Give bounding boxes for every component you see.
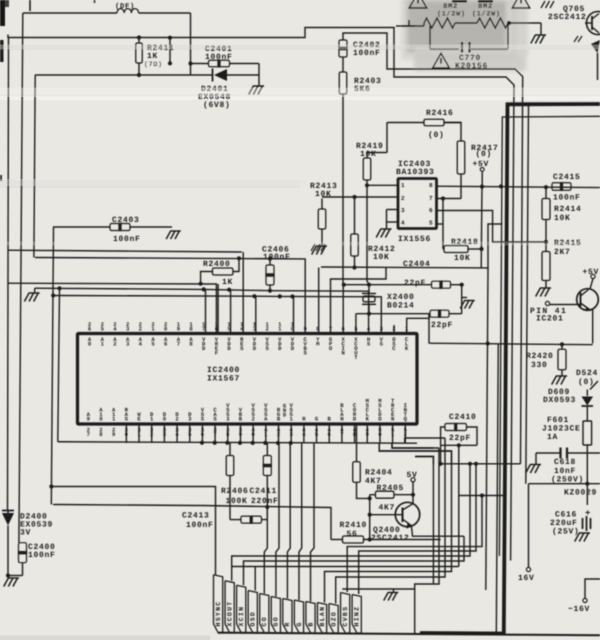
- wire route p26b: [405, 438, 445, 443]
- wire pin drops top: [205, 290, 207, 334]
- capacitor C2410: [445, 424, 467, 431]
- wire under-IC VSS line: [58, 442, 417, 443]
- svg-text:(7Ω): (7Ω): [144, 61, 163, 68]
- svg-text:2: 2: [392, 326, 395, 333]
- svg-text:2: 2: [251, 415, 254, 422]
- ground G_C616b: [584, 533, 589, 542]
- svg-text:N: N: [391, 415, 394, 422]
- svg-text:HSYNC: HSYNC: [215, 600, 222, 626]
- ground G1: [258, 86, 263, 95]
- svg-text:F: F: [215, 350, 218, 357]
- resistor R2414: [542, 199, 550, 220]
- wire bus v528: [526, 105, 529, 484]
- svg-text:CO: CO: [261, 616, 268, 626]
- wire R2416 left drop: [386, 123, 388, 153]
- ground G7: [545, 288, 550, 297]
- warning triangle right: [512, 0, 530, 8]
- svg-text:9: 9: [177, 325, 180, 332]
- svg-text:−16V: −16V: [568, 605, 590, 614]
- svg-text:100nF: 100nF: [553, 194, 581, 203]
- svg-text:(1/2W): (1/2W): [437, 11, 466, 19]
- svg-text:6: 6: [429, 207, 433, 214]
- resistor R2400: [212, 268, 233, 275]
- svg-text:7: 7: [87, 431, 90, 438]
- warning triangle left: [409, 0, 427, 8]
- svg-text:100nF: 100nF: [186, 521, 214, 530]
- wire pin6 route: [437, 211, 547, 243]
- bus connector flags: [214, 575, 223, 633]
- transistor Q705 (edge cut): [587, 12, 600, 35]
- wire CLK route: [407, 314, 429, 333]
- svg-text:2: 2: [139, 325, 142, 332]
- svg-text:IC201: IC201: [536, 315, 564, 324]
- wire join bottom: [8, 575, 23, 577]
- wire 488 long drop: [486, 268, 488, 591]
- wire R2418 vertical: [480, 187, 483, 268]
- terminal 16V: [526, 567, 530, 571]
- svg-text:DX0593: DX0593: [543, 396, 576, 405]
- resistor R2411: [136, 43, 143, 63]
- wire R2419 long drop: [367, 185, 369, 284]
- ground G8: [561, 376, 566, 385]
- resistor R2410: [343, 536, 364, 543]
- wire D2400 down: [7, 526, 9, 576]
- svg-text:220nF: 220nF: [251, 497, 279, 506]
- wire stair Lf: [325, 451, 452, 603]
- svg-text:16V: 16V: [518, 574, 535, 583]
- capacitor C2401: [209, 60, 230, 67]
- capacitor C770: [429, 26, 431, 49]
- svg-text:(0): (0): [578, 378, 595, 387]
- wire y343.5 line: [429, 343, 593, 345]
- transistor Q2400: [395, 502, 419, 526]
- svg-text:(0): (0): [428, 131, 445, 140]
- svg-text:C2403: C2403: [112, 216, 140, 225]
- transistor Q (IC201 drive): [577, 289, 599, 311]
- ground G6: [385, 229, 390, 238]
- svg-text:+5V: +5V: [583, 268, 600, 277]
- svg-text:+5V: +5V: [473, 160, 490, 169]
- svg-text:10K: 10K: [360, 150, 377, 159]
- wire route y456: [415, 457, 433, 584]
- svg-text:100nF: 100nF: [263, 253, 291, 262]
- svg-text:5: 5: [429, 220, 433, 227]
- wire pin2 net: [321, 199, 323, 210]
- svg-text:N: N: [340, 415, 343, 422]
- terminal PIN41: [545, 301, 549, 305]
- wire stair Le: [232, 566, 459, 568]
- svg-text:D524: D524: [576, 369, 598, 378]
- wire v_d: [58, 288, 60, 441]
- svg-text:3V: 3V: [20, 529, 31, 538]
- wire F601 down: [586, 484, 588, 505]
- wire line C: [8, 283, 216, 333]
- resistor R2412: [351, 234, 359, 256]
- diode D2401: [214, 69, 227, 81]
- ground G_8M2: [540, 35, 545, 44]
- wire line A y250: [8, 250, 242, 252]
- svg-text:2SC2412: 2SC2412: [548, 13, 587, 22]
- svg-text:100nF: 100nF: [353, 49, 381, 58]
- resistor R2404: [353, 462, 361, 483]
- wire emitter down: [592, 310, 594, 344]
- svg-text:R2416: R2416: [426, 109, 454, 118]
- wire flag feeds straight: [264, 507, 267, 594]
- ground G_C616a: [582, 518, 584, 529]
- wire flag1 feed: [53, 487, 216, 575]
- wire stair Lg: [336, 438, 445, 604]
- svg-text:10K: 10K: [554, 214, 571, 223]
- svg-text:22pF: 22pF: [449, 434, 471, 443]
- resistor R2403: [339, 72, 347, 94]
- svg-text:IX1567: IX1567: [207, 375, 240, 384]
- wire pin3 pin4 to ground: [387, 209, 399, 211]
- IC IC2400 body: [78, 334, 418, 425]
- svg-text:C2415: C2415: [553, 173, 581, 182]
- svg-text:3: 3: [401, 207, 405, 214]
- wire line A: [8, 28, 514, 561]
- svg-text:XCOUT: XCOUT: [226, 600, 233, 626]
- capacitor C2402: [339, 40, 347, 57]
- wire left v_b: [19, 13, 23, 543]
- wire 16V drop: [528, 484, 530, 568]
- wire line B: [35, 258, 305, 334]
- wire R2405 base drop: [369, 515, 371, 540]
- hatch at line B end: [311, 244, 315, 251]
- svg-text:R2405: R2405: [377, 484, 405, 493]
- capacitor C2400: [19, 543, 27, 563]
- wire C2401 to ground: [258, 64, 260, 87]
- svg-text:XCIN: XCIN: [238, 606, 245, 627]
- ground G9: [535, 465, 540, 474]
- svg-text:(DF): (DF): [115, 2, 135, 11]
- resistor 8M2 #2: [477, 18, 508, 28]
- wire route p24: [379, 443, 451, 451]
- resistor R2416: [424, 119, 444, 126]
- svg-text:R2406: R2406: [221, 487, 249, 496]
- scan artifact marks left edge: [0, 0, 5, 26]
- svg-text:N: N: [342, 350, 345, 357]
- svg-text:CVBS: CVBS: [342, 606, 349, 627]
- capacitor C2403: [110, 224, 130, 231]
- svg-text:22pF: 22pF: [431, 321, 453, 330]
- wire crystal bottom net: [355, 314, 357, 333]
- capacitor C2406: [266, 265, 274, 285]
- svg-text:OSD: OSD: [250, 611, 257, 627]
- svg-text:100K: 100K: [226, 497, 248, 506]
- svg-text:GO: GO: [273, 616, 280, 626]
- wire line y75 (D2401 net): [35, 74, 213, 76]
- svg-text:G: G: [296, 621, 303, 626]
- wire route p24: [379, 443, 451, 464]
- wire y463.8 line: [441, 463, 521, 465]
- wire route p25: [392, 443, 439, 448]
- svg-text:330: 330: [531, 361, 548, 370]
- thin board outline: [499, 116, 600, 556]
- wire left v3: [34, 75, 35, 258]
- svg-text:1: 1: [401, 182, 405, 189]
- svg-text:BA10393: BA10393: [396, 168, 435, 177]
- svg-text:1K: 1K: [147, 52, 158, 61]
- capacitor C2413: [241, 516, 262, 523]
- wire v440 down: [440, 445, 442, 464]
- wire pin1 net: [367, 184, 398, 186]
- ground G10: [392, 593, 396, 601]
- svg-text:(0): (0): [476, 150, 493, 159]
- svg-text:100nF: 100nF: [28, 551, 56, 560]
- svg-text:2K7: 2K7: [554, 248, 571, 257]
- svg-text:2SC2412: 2SC2412: [371, 534, 410, 543]
- wire crystal top net: [342, 285, 344, 333]
- svg-text:B: B: [307, 621, 314, 626]
- wire 8M2 left terminal: [396, 25, 424, 27]
- resistor R2418: [444, 246, 468, 253]
- wire collector: [412, 495, 414, 505]
- svg-text:56: 56: [347, 530, 358, 539]
- ground G11: [13, 578, 18, 587]
- wire C2402 to R2403: [342, 57, 344, 72]
- wire route y456: [415, 457, 433, 464]
- wire bus v499: [496, 344, 498, 633]
- svg-text:2: 2: [265, 325, 268, 332]
- wire caps right join: [461, 285, 463, 314]
- svg-text:HINZ: HINZ: [354, 606, 361, 627]
- tick mark top-left: [29, 0, 31, 11]
- inductor (DF): [23, 12, 117, 14]
- crystal X2400: [362, 293, 376, 295]
- fuse F601: [583, 421, 592, 445]
- svg-text:1K: 1K: [222, 278, 233, 287]
- svg-text:KZ0029: KZ0029: [564, 489, 597, 498]
- svg-text:2: 2: [401, 195, 405, 202]
- svg-text:9: 9: [112, 431, 115, 438]
- hatch marks near Q705: [541, 1, 545, 8]
- wire line E: [54, 296, 382, 334]
- resistor R2413: [318, 209, 326, 229]
- svg-text:(1/2W): (1/2W): [472, 11, 501, 19]
- resistor R2405: [375, 491, 394, 498]
- wire left v_a: [8, 38, 9, 511]
- wire C2410 frame: [441, 427, 445, 445]
- svg-text:9: 9: [87, 415, 90, 422]
- resistor R2415: [542, 252, 550, 281]
- wire C2404 box route: [321, 224, 502, 268]
- capacitor C2405 22pF: [430, 310, 449, 317]
- diode D2400: [2, 510, 14, 512]
- svg-text:5V: 5V: [407, 471, 418, 480]
- capacitor C2415: [552, 183, 571, 191]
- resistor R2419: [363, 158, 371, 180]
- shaded region (resistor network block): [404, 0, 528, 71]
- wire pin8 +5V rail: [437, 186, 600, 187]
- capacitor C618: [559, 448, 561, 459]
- svg-text:8: 8: [429, 182, 433, 189]
- wire route p25: [392, 443, 433, 448]
- ground G2: [175, 231, 179, 239]
- svg-text:1A: 1A: [547, 433, 558, 442]
- wire line A to C2401 tap: [169, 38, 171, 64]
- wire v_c: [51, 227, 53, 505]
- svg-text:10K: 10K: [373, 253, 390, 262]
- wire pin5 stub: [437, 223, 444, 225]
- wire stair Ld: [244, 536, 465, 585]
- ground G4: [469, 301, 473, 309]
- wire y495 stub: [459, 495, 505, 497]
- wire -16V: [585, 579, 600, 598]
- svg-text:C2410: C2410: [449, 413, 477, 422]
- svg-text:10K: 10K: [454, 254, 471, 263]
- svg-text:C2411: C2411: [250, 487, 278, 496]
- wire D ground stub: [34, 288, 36, 293]
- svg-text:C618: C618: [554, 458, 576, 467]
- svg-text:2: 2: [113, 341, 116, 348]
- svg-text:7: 7: [202, 325, 205, 332]
- terminal 5V mid: [411, 478, 415, 482]
- wire bus right box: [342, 589, 414, 634]
- ground G3: [34, 293, 39, 302]
- svg-text:(6V8): (6V8): [203, 101, 231, 110]
- svg-text:C2413: C2413: [182, 512, 210, 521]
- wire R2403 down: [342, 94, 344, 285]
- wire D524 jumper: [590, 381, 598, 390]
- resistor 8M2 #1: [424, 18, 455, 28]
- svg-text:7: 7: [429, 195, 433, 202]
- svg-text:R2400: R2400: [203, 260, 231, 269]
- wire emitter Q2400: [412, 527, 465, 537]
- terminal +5V right: [591, 274, 595, 278]
- svg-text:4K7: 4K7: [379, 504, 396, 513]
- svg-text:OZO: OZO: [330, 611, 337, 627]
- svg-text:R2414: R2414: [554, 205, 582, 214]
- label R721 cut: [452, 0, 467, 3]
- svg-text:22pF: 22pF: [404, 279, 426, 288]
- svg-text:R2420: R2420: [526, 352, 554, 361]
- terminal +5V: [480, 168, 484, 172]
- wire C2402 top route: [343, 33, 523, 464]
- svg-text:100nF: 100nF: [205, 53, 233, 62]
- wire stair Lb: [359, 464, 476, 594]
- resistor R2417: [457, 141, 465, 174]
- diode at right edge: [591, 40, 600, 53]
- wire DF right drop: [190, 13, 192, 75]
- IC op-amp IC2403: [398, 179, 437, 229]
- resistor R2420: [558, 349, 566, 370]
- svg-text:BLAN: BLAN: [319, 606, 326, 627]
- wire pin7 net: [437, 198, 462, 200]
- wire 8M2 right to ground: [507, 22, 541, 24]
- svg-text:R2410: R2410: [340, 521, 368, 530]
- diode D609: [586, 390, 588, 397]
- svg-text:9: 9: [303, 326, 306, 333]
- wire stair La: [347, 496, 482, 593]
- ground G5: [321, 246, 326, 255]
- svg-text:R: R: [284, 621, 291, 626]
- wire pin7 to R2418: [442, 199, 444, 250]
- svg-text:B0214: B0214: [387, 302, 415, 311]
- wire C2410 tap: [458, 445, 460, 566]
- terminal -16V: [583, 598, 587, 602]
- svg-text:7: 7: [177, 341, 180, 348]
- svg-text:7: 7: [329, 326, 332, 333]
- thick board outline: [420, 104, 600, 634]
- capacitor C2411: [263, 456, 271, 476]
- wire stair Lh: [415, 448, 439, 589]
- capacitor C2404 22pF: [432, 281, 451, 288]
- svg-text:4: 4: [401, 220, 405, 227]
- wire stair Lc: [232, 464, 470, 581]
- wire bottom pin stubs: [125, 424, 127, 443]
- warning triangle C770: [433, 53, 450, 68]
- wire line D: [35, 288, 369, 333]
- bus baseline: [219, 633, 600, 636]
- wire y505 long line: [53, 505, 331, 540]
- wire y483.7 line: [529, 483, 600, 485]
- resistor R2406: [226, 456, 234, 476]
- svg-text:(25V): (25V): [552, 528, 580, 537]
- svg-text:2: 2: [175, 415, 178, 422]
